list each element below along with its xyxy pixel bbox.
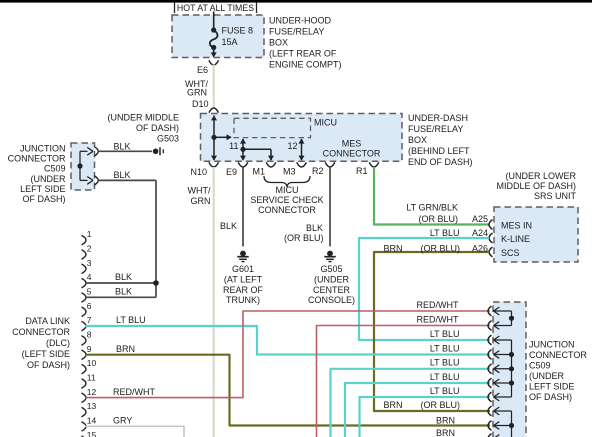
ground G503 (153, 147, 164, 155)
svg-text:RED/WHT: RED/WHT (417, 314, 459, 324)
svg-text:15A: 15A (222, 37, 238, 47)
svg-text:8: 8 (87, 330, 92, 340)
C509 top pin 1 (87, 147, 93, 151)
svg-text:END OF DASH): END OF DASH) (408, 157, 473, 167)
svg-text:(OR BLU): (OR BLU) (420, 244, 460, 254)
HOT AT ALL TIMES bracket (174, 2, 176, 13)
svg-text:(OR BLU): (OR BLU) (284, 233, 324, 243)
ground G505 (324, 251, 335, 262)
DLC pin 5 (82, 293, 87, 303)
svg-text:9: 9 (87, 344, 92, 354)
svg-text:(AT LEFT: (AT LEFT (224, 275, 263, 285)
C509 pin row 5 (488, 364, 492, 374)
wire LT BLU DLC pin7 to C509 (85, 326, 490, 355)
svg-text:D10: D10 (192, 99, 209, 109)
svg-text:4: 4 (87, 272, 92, 282)
C509 bus brn group (494, 411, 515, 437)
svg-text:14: 14 (87, 415, 97, 425)
svg-text:MICU: MICU (314, 118, 337, 128)
wire BRN DLC pin9 to C509 (85, 355, 490, 426)
wire WHT/GRN N10 down (213, 167, 215, 437)
svg-text:G601: G601 (232, 264, 254, 274)
svg-text:HOT AT ALL TIMES: HOT AT ALL TIMES (177, 3, 254, 13)
svg-text:FUSE 8: FUSE 8 (222, 26, 254, 36)
SRS unit box (494, 207, 578, 262)
svg-text:LT BLU: LT BLU (430, 358, 460, 368)
connector M1 (266, 162, 276, 167)
C509 pin row 1 (488, 306, 492, 316)
MICU inner box (234, 118, 311, 137)
svg-text:G505: G505 (320, 264, 342, 274)
C509 pin row 3 (488, 335, 492, 345)
svg-text:(OR BLU): (OR BLU) (418, 214, 458, 224)
svg-text:15: 15 (87, 430, 97, 437)
svg-text:M3: M3 (283, 167, 296, 177)
DLC pin 13 (82, 407, 87, 417)
svg-text:LT BLU: LT BLU (116, 315, 146, 325)
svg-text:MES: MES (342, 139, 362, 149)
svg-text:13: 13 (87, 401, 97, 411)
svg-text:OF DASH): OF DASH) (27, 360, 70, 370)
svg-text:A26: A26 (472, 244, 488, 254)
svg-text:LT BLU: LT BLU (430, 344, 460, 354)
C509 top pin 2 (87, 177, 93, 181)
svg-text:GRN: GRN (191, 196, 211, 206)
svg-text:CONNECTOR: CONNECTOR (323, 149, 381, 159)
svg-text:N10: N10 (190, 167, 207, 177)
svg-text:SERVICE CHECK: SERVICE CHECK (250, 195, 323, 205)
connector E9 (238, 162, 248, 167)
MICU pin 12 wire (299, 138, 305, 160)
svg-text:FUSE/RELAY: FUSE/RELAY (408, 124, 463, 134)
connector E6 (209, 60, 219, 65)
svg-text:M1: M1 (252, 167, 265, 177)
DLC pin 1 (82, 235, 87, 245)
svg-text:BLK: BLK (114, 142, 131, 152)
svg-text:BOX: BOX (408, 135, 427, 145)
svg-text:(UNDER LOWER: (UNDER LOWER (505, 171, 576, 181)
svg-text:12: 12 (87, 387, 97, 397)
svg-text:12: 12 (287, 141, 297, 151)
svg-text:(UNDER MIDDLE: (UNDER MIDDLE (107, 113, 179, 123)
svg-text:JUNCTION: JUNCTION (529, 340, 575, 350)
svg-text:CONNECTOR: CONNECTOR (12, 327, 70, 337)
svg-text:ENGINE COMPT): ENGINE COMPT) (269, 60, 342, 70)
DLC pin 7 (82, 321, 87, 331)
svg-text:BRN: BRN (384, 400, 403, 410)
brace MICU service check connector (264, 176, 310, 187)
svg-text:BLK: BLK (114, 170, 131, 180)
wire BLK C509 pin2 down (98, 179, 156, 181)
svg-text:UNDER-HOOD: UNDER-HOOD (269, 16, 331, 26)
svg-text:A24: A24 (472, 228, 488, 238)
svg-text:BRN: BRN (384, 244, 403, 254)
svg-text:10: 10 (87, 358, 97, 368)
wire BLK to G503 (98, 150, 152, 152)
svg-text:OF DASH): OF DASH) (529, 392, 572, 402)
svg-text:7: 7 (87, 315, 92, 325)
under-hood fuse/relay box (172, 15, 264, 58)
junction connector C509 bottom box (493, 302, 526, 437)
SRS pin A24 (489, 233, 493, 243)
svg-text:A25: A25 (472, 214, 488, 224)
svg-text:GRN: GRN (187, 88, 207, 98)
DLC pin 4 (82, 278, 87, 288)
svg-text:1: 1 (87, 229, 92, 239)
svg-text:5: 5 (87, 287, 92, 297)
svg-text:CONNECTOR: CONNECTOR (8, 154, 66, 164)
svg-text:CONNECTOR: CONNECTOR (258, 205, 316, 215)
wire BLK (OR BLU) R2 to G505 (329, 167, 331, 246)
svg-text:WHT/: WHT/ (188, 186, 211, 196)
svg-text:CONNECTOR: CONNECTOR (529, 350, 587, 360)
C509 top internal bus (77, 151, 87, 180)
svg-text:MIDDLE OF DASH): MIDDLE OF DASH) (496, 181, 576, 191)
connector D10 (209, 108, 219, 113)
DLC pin 3 (82, 264, 87, 274)
wire RED/WHT from below to C509 row2 (317, 326, 491, 437)
DLC pin 2 (82, 250, 87, 260)
svg-text:LT GRN/BLK: LT GRN/BLK (406, 203, 458, 213)
ground G601 (237, 251, 248, 262)
svg-text:RED/WHT: RED/WHT (113, 387, 155, 397)
internal wire D10-N10 (211, 115, 232, 161)
svg-text:(BEHIND LEFT: (BEHIND LEFT (408, 146, 470, 156)
C509 pin row 6 (488, 378, 492, 388)
C509 pin row 9 (488, 421, 492, 431)
MICU pin 11 wire (240, 138, 274, 160)
svg-text:LT BLU: LT BLU (430, 228, 460, 238)
svg-text:MICU: MICU (276, 185, 299, 195)
svg-text:C509: C509 (44, 164, 66, 174)
DLC pin 15 (82, 436, 87, 437)
C509 pin row 4 (488, 350, 492, 360)
wire LT BLU C509 row7 down (360, 397, 491, 437)
C509 bus red pair (494, 311, 515, 326)
connector M3 (297, 162, 307, 167)
svg-text:SRS UNIT: SRS UNIT (534, 191, 577, 201)
svg-text:DATA LINK: DATA LINK (25, 316, 70, 326)
DLC pin 6 (82, 307, 87, 317)
svg-text:BLK: BLK (115, 272, 132, 282)
svg-text:(UNDER: (UNDER (31, 174, 66, 184)
wire BLK DLC pin4 (85, 282, 156, 284)
connector N10 (209, 162, 219, 167)
svg-text:GRY: GRY (113, 416, 132, 426)
wire BLK DLC pin5 (85, 296, 156, 298)
wire LT BLU SRS A24 to C509 (359, 238, 490, 340)
C509 pin row 7 (488, 392, 492, 402)
svg-text:BRN: BRN (436, 428, 455, 437)
svg-text:BOX: BOX (269, 38, 288, 48)
svg-text:BRN: BRN (436, 416, 455, 426)
DLC pin 10 (82, 364, 87, 374)
svg-text:E6: E6 (197, 65, 208, 75)
svg-text:LEFT SIDE: LEFT SIDE (20, 184, 65, 194)
DLC pin 12 (82, 393, 87, 403)
svg-text:11: 11 (229, 141, 238, 151)
svg-text:LEFT SIDE: LEFT SIDE (529, 382, 574, 392)
svg-text:(LEFT REAR OF: (LEFT REAR OF (269, 49, 337, 59)
svg-text:K-LINE: K-LINE (501, 234, 530, 244)
svg-text:SCS: SCS (501, 248, 520, 258)
svg-text:OF DASH): OF DASH) (22, 194, 65, 204)
svg-text:E9: E9 (226, 167, 237, 177)
svg-text:BLK: BLK (115, 287, 132, 297)
wire BLK E9 to G601 (242, 167, 244, 246)
svg-text:LT BLU: LT BLU (430, 372, 460, 382)
svg-text:BRN: BRN (116, 344, 135, 354)
C509 pin row 2 (488, 321, 492, 331)
DLC pin 9 (82, 350, 87, 360)
DLC pin 8 (82, 336, 87, 346)
svg-text:2: 2 (87, 244, 92, 254)
svg-text:3: 3 (87, 258, 92, 268)
fuse FUSE 8 15A (210, 27, 218, 57)
wire WHT/GRN E6-D10 (213, 65, 215, 109)
wire LT GRN/BLK R1 to SRS A25 (374, 167, 489, 225)
connector R1 (369, 162, 379, 167)
wire BLK junction vertical (155, 180, 157, 297)
svg-text:CONSOLE): CONSOLE) (308, 295, 355, 305)
svg-text:LT BLU: LT BLU (430, 386, 460, 396)
svg-text:FUSE/RELAY: FUSE/RELAY (269, 27, 324, 37)
svg-text:11: 11 (87, 373, 96, 383)
wire LT BLU C509 row5 down (331, 369, 491, 437)
svg-text:(UNDER: (UNDER (529, 371, 564, 381)
top border bar (0, 0, 592, 3)
under-dash fuse/relay box (201, 114, 403, 162)
svg-text:UNDER-DASH: UNDER-DASH (408, 113, 468, 123)
wire BRN (OR BLU) SRS A26 to C509 (374, 252, 490, 411)
svg-text:(OR BLU): (OR BLU) (420, 400, 460, 410)
svg-text:TRUNK): TRUNK) (226, 295, 260, 305)
svg-text:6: 6 (87, 301, 92, 311)
wire LT BLU C509 row6 down (345, 383, 490, 437)
svg-text:(LEFT SIDE: (LEFT SIDE (22, 349, 70, 359)
svg-text:RED/WHT: RED/WHT (417, 300, 459, 310)
svg-text:C509: C509 (529, 361, 551, 371)
wire feed into fuse (213, 12, 215, 31)
svg-text:R1: R1 (356, 166, 368, 176)
svg-text:G503: G503 (157, 134, 179, 144)
SRS pin A25 (489, 220, 493, 230)
svg-text:(DLC): (DLC) (46, 338, 70, 348)
junction connector C509 top box (71, 143, 95, 190)
DLC pin 11 (82, 379, 87, 389)
svg-text:BLK: BLK (220, 221, 237, 231)
svg-text:CENTER: CENTER (313, 285, 351, 295)
svg-text:REAR OF: REAR OF (223, 285, 264, 295)
junction dot pins4/5 (153, 280, 159, 286)
wire GRY DLC pin14 (85, 426, 184, 437)
svg-text:JUNCTION: JUNCTION (20, 144, 66, 154)
svg-text:(UNDER: (UNDER (314, 275, 349, 285)
C509 pin row 8 (488, 406, 492, 416)
DLC pin 14 (82, 422, 87, 432)
C509 pin row 10 (488, 434, 492, 437)
svg-text:R2: R2 (312, 166, 324, 176)
svg-text:MES IN: MES IN (501, 221, 532, 231)
svg-text:BLK: BLK (306, 223, 323, 233)
connector R2 (325, 162, 335, 167)
wire RED/WHT DLC pin12 to C509 (85, 311, 490, 398)
C509 bus lt blu group (494, 340, 515, 397)
svg-text:OF DASH): OF DASH) (136, 123, 179, 133)
SRS pin A26 (489, 247, 493, 257)
svg-text:LT BLU: LT BLU (430, 329, 460, 339)
